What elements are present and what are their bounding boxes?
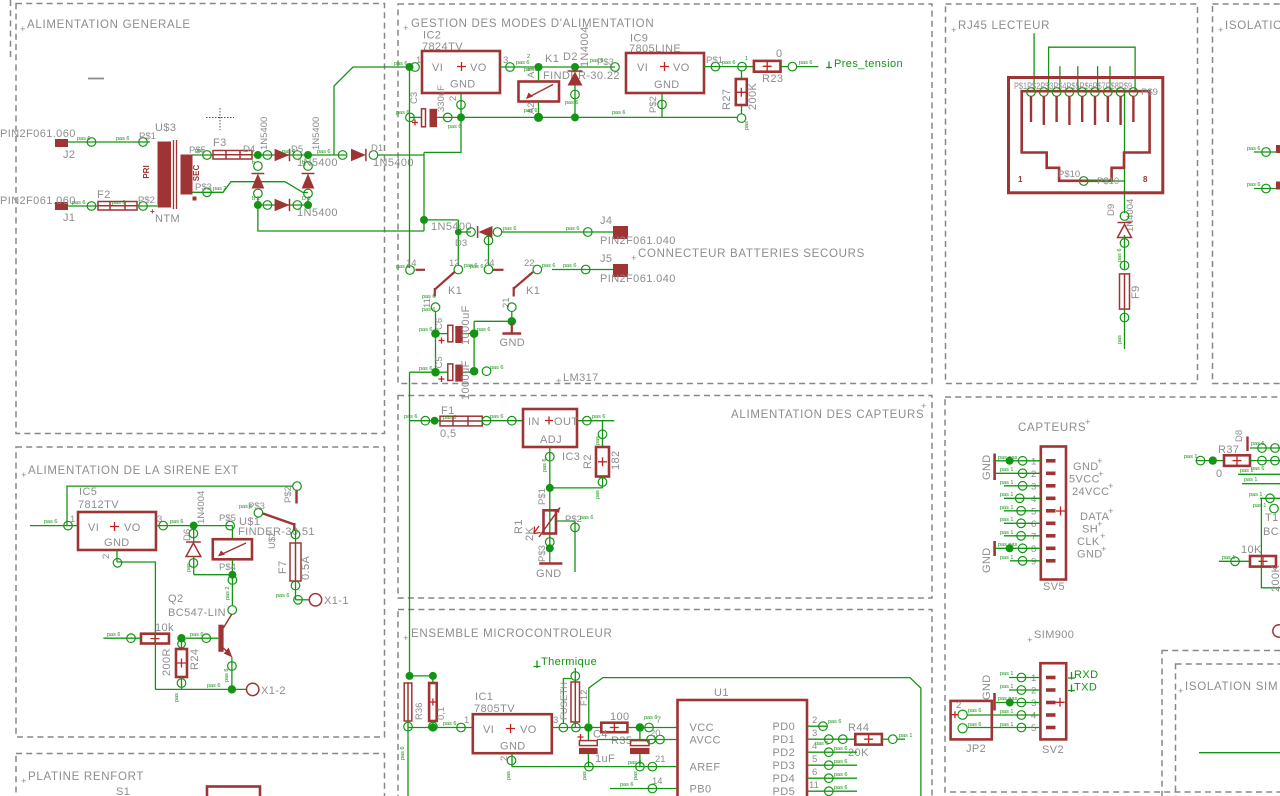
svg-text:PIN2F061.060: PIN2F061.060 xyxy=(0,195,76,207)
wire C6 to node xyxy=(473,321,475,371)
svg-text:5: 5 xyxy=(812,754,817,765)
wire stubs xyxy=(1059,66,1061,92)
wires right of R37 xyxy=(1250,447,1280,449)
svg-text:pas 6: pas 6 xyxy=(503,226,516,232)
fuse F7 xyxy=(290,543,301,581)
frame GESTION DES MODES D'ALIMENTATION xyxy=(398,4,932,384)
connector X1-1 xyxy=(309,594,321,606)
svg-text:pas 6: pas 6 xyxy=(516,60,529,66)
svg-text:P$2: P$2 xyxy=(648,96,659,113)
SV2 tiny pin texts xyxy=(998,671,1018,728)
svg-text:pas: pas xyxy=(582,771,588,780)
svg-text:+: + xyxy=(1097,456,1103,467)
svg-text:pas 6: pas 6 xyxy=(116,136,129,142)
junction battery node xyxy=(420,216,428,224)
pin 1 IC2 xyxy=(411,63,420,72)
svg-text:SEC: SEC xyxy=(192,165,201,182)
wire bridge bottom bus xyxy=(258,209,424,231)
crosshair mark xyxy=(206,108,234,130)
svg-text:pas 6: pas 6 xyxy=(834,759,847,765)
svg-text:D1: D1 xyxy=(371,143,383,154)
svg-text:0: 0 xyxy=(1216,468,1223,480)
wire D1 out to GESTION xyxy=(378,154,424,156)
gnd bus wire xyxy=(512,766,678,768)
svg-text:VCC: VCC xyxy=(690,722,714,734)
svg-text:OUT: OUT xyxy=(554,416,578,428)
svg-text:ENSEMBLE MICROCONTROLEUR: ENSEMBLE MICROCONTROLEUR xyxy=(411,628,612,640)
svg-text:DATA: DATA xyxy=(1080,511,1110,523)
ground bus to X1-2 xyxy=(155,688,246,690)
svg-text:5: 5 xyxy=(1031,507,1036,518)
svg-text:pas 6: pas 6 xyxy=(524,67,537,73)
svg-text:C5: C5 xyxy=(434,356,445,368)
svg-text:P$3: P$3 xyxy=(195,182,212,193)
relay contact K1 right (22-21) xyxy=(533,265,542,274)
svg-text:1N5400: 1N5400 xyxy=(297,207,338,219)
wire supply vertical into micro xyxy=(409,598,411,676)
svg-text:P$2: P$2 xyxy=(138,195,155,206)
svg-text:LM317: LM317 xyxy=(563,372,599,384)
svg-text:200K: 200K xyxy=(1270,564,1280,592)
SV2 pin numbers xyxy=(1031,673,1036,734)
svg-text:+: + xyxy=(20,24,26,35)
svg-text:pas 1: pas 1 xyxy=(1240,468,1253,474)
svg-text:pas 6: pas 6 xyxy=(448,124,461,130)
pin 14 PB0 xyxy=(610,788,678,790)
junction base node xyxy=(177,634,185,642)
svg-text:pas 6: pas 6 xyxy=(443,721,456,727)
svg-text:pas 6: pas 6 xyxy=(834,772,847,778)
svg-text:GND: GND xyxy=(981,454,993,480)
svg-text:0.5A: 0.5A xyxy=(300,556,312,580)
svg-text:pas 6: pas 6 xyxy=(239,504,252,510)
label Thermique xyxy=(534,661,541,669)
svg-text:GND: GND xyxy=(981,547,993,573)
pin 3 PD1 / resistor R44 xyxy=(807,738,855,740)
svg-text:1N5400: 1N5400 xyxy=(311,117,322,150)
wire diode D3 row xyxy=(458,231,471,233)
svg-text:R24: R24 xyxy=(189,649,201,670)
svg-text:pas 1: pas 1 xyxy=(1000,684,1013,690)
svg-text:GESTION DES MODES D'ALIMENTATI: GESTION DES MODES D'ALIMENTATION xyxy=(411,18,654,30)
pin 2 PD0 xyxy=(807,725,827,727)
svg-text:1: 1 xyxy=(1018,175,1023,184)
base wire xyxy=(186,637,218,639)
resistor R36 0,1 xyxy=(432,676,434,683)
svg-text:24VCC: 24VCC xyxy=(1072,486,1109,498)
wire SEC bottom (AC2) xyxy=(193,182,309,193)
wire F1 to LM317 xyxy=(482,420,523,422)
svg-text:9: 9 xyxy=(1031,557,1036,568)
svg-text:R2: R2 xyxy=(582,454,594,469)
svg-text:GND: GND xyxy=(1077,549,1103,561)
relay contact P$3 arm xyxy=(254,509,263,518)
svg-text:IC2: IC2 xyxy=(423,30,441,42)
capacitor C5 xyxy=(431,368,440,377)
svg-text:pas 6: pas 6 xyxy=(828,719,841,725)
svg-text:1: 1 xyxy=(416,55,421,66)
svg-text:7: 7 xyxy=(1031,532,1036,543)
SV5 pin stubs xyxy=(1046,459,1056,563)
svg-text:2: 2 xyxy=(956,700,961,711)
svg-text:RJ45 LECTEUR: RJ45 LECTEUR xyxy=(958,20,1050,32)
sheet border segment top-left xyxy=(10,0,12,58)
svg-text:pas 6: pas 6 xyxy=(590,58,603,64)
svg-text:24: 24 xyxy=(484,258,495,269)
svg-text:2: 2 xyxy=(812,715,817,726)
svg-text:pas 6: pas 6 xyxy=(542,459,548,472)
svg-text:pas 1: pas 1 xyxy=(1000,492,1013,498)
svg-text:pas 6: pas 6 xyxy=(443,415,456,421)
svg-text:pas 6: pas 6 xyxy=(612,110,625,116)
svg-text:pas 6: pas 6 xyxy=(317,149,330,155)
svg-text:PD4: PD4 xyxy=(773,773,796,785)
svg-text:3: 3 xyxy=(1031,482,1036,493)
fuse F1 xyxy=(440,416,482,426)
green line in isolation sim xyxy=(1199,752,1280,754)
svg-text:pas: pas xyxy=(195,148,204,154)
svg-text:2: 2 xyxy=(1031,686,1036,697)
pin 21 AREF xyxy=(648,762,657,771)
svg-text:D3: D3 xyxy=(455,238,467,249)
resistor R2 xyxy=(602,421,604,447)
svg-text:2: 2 xyxy=(1031,469,1036,480)
pin 3 IC5 out xyxy=(159,521,168,530)
svg-text:pas 6: pas 6 xyxy=(628,760,641,766)
SV2 gnd symbol xyxy=(993,693,996,711)
relay contact to fuse F7 xyxy=(291,530,300,539)
svg-text:+: + xyxy=(403,633,409,644)
pin 4 PD2 xyxy=(807,751,857,753)
svg-text:CLK: CLK xyxy=(1077,536,1100,548)
svg-text:PD3: PD3 xyxy=(773,760,796,772)
header JP2 xyxy=(951,701,992,740)
svg-text:pas 1: pas 1 xyxy=(1000,517,1013,523)
diode D8 stub xyxy=(1246,437,1248,452)
wire supply vertical xyxy=(409,396,411,599)
wire contact 11 down xyxy=(435,312,437,373)
svg-text:pas 6: pas 6 xyxy=(968,708,981,714)
svg-text:pas 6: pas 6 xyxy=(224,669,230,682)
svg-text:RXD: RXD xyxy=(1074,669,1098,681)
emitter wire xyxy=(231,657,233,690)
svg-text:+: + xyxy=(1098,469,1104,480)
frame RJ45 LECTEUR xyxy=(946,4,1198,384)
svg-text:pas 2: pas 2 xyxy=(213,186,226,192)
svg-text:pas 1: pas 1 xyxy=(1249,492,1262,498)
svg-text:pas 6: pas 6 xyxy=(968,722,981,728)
svg-text:1: 1 xyxy=(1031,673,1036,684)
capacitor C3 xyxy=(406,113,415,122)
svg-text:Pres_tension: Pres_tension xyxy=(834,58,903,70)
svg-text:2: 2 xyxy=(527,54,530,60)
svg-text:P$9: P$9 xyxy=(1141,87,1158,98)
svg-text:PD5: PD5 xyxy=(773,786,796,796)
svg-text:+: + xyxy=(1100,531,1106,542)
svg-text:330uF: 330uF xyxy=(436,85,447,112)
svg-text:+: + xyxy=(21,470,27,481)
header SV2 xyxy=(1040,663,1066,739)
svg-text:F2: F2 xyxy=(97,189,111,201)
svg-text:F9: F9 xyxy=(1130,285,1142,299)
svg-text:PD2: PD2 xyxy=(773,747,796,759)
svg-text:1uF: 1uF xyxy=(595,753,615,765)
svg-text:pas 6: pas 6 xyxy=(419,327,432,333)
svg-text:pas 6: pas 6 xyxy=(396,110,409,116)
pin circle xyxy=(87,138,96,147)
svg-text:P$1: P$1 xyxy=(139,131,156,142)
svg-text:pas 6: pas 6 xyxy=(422,294,435,300)
svg-text:1: 1 xyxy=(745,56,748,62)
wire gnd node down from C3 xyxy=(424,117,461,152)
svg-text:J2: J2 xyxy=(63,149,75,161)
svg-text:SV5: SV5 xyxy=(1043,581,1065,593)
fuse thermique xyxy=(571,672,580,681)
wire stub lower xyxy=(1254,188,1280,190)
svg-text:3: 3 xyxy=(503,55,508,66)
svg-text:D 3: D 3 xyxy=(302,196,311,202)
RJ45 inner cavity xyxy=(1022,91,1150,181)
svg-text:PRI: PRI xyxy=(142,165,151,178)
svg-text:P$1: P$1 xyxy=(537,488,548,505)
svg-text:pas: pas xyxy=(744,121,750,130)
svg-text:+: + xyxy=(1178,686,1184,697)
wire J2 to transformer P$1 xyxy=(68,141,150,143)
relay contact K1 pin24 xyxy=(484,265,493,274)
svg-text:+: + xyxy=(921,401,927,412)
svg-text:pas 6: pas 6 xyxy=(394,61,407,67)
transformer U$3 secondary winding xyxy=(181,155,193,195)
junction to F1 xyxy=(410,420,441,422)
svg-text:+: + xyxy=(951,25,957,36)
svg-text:CAPTEURS: CAPTEURS xyxy=(1018,422,1086,434)
pin 3 IC1 out xyxy=(559,723,568,732)
svg-text:pas 6: pas 6 xyxy=(44,519,57,525)
svg-text:VI: VI xyxy=(483,724,494,736)
pin 5 PD3 xyxy=(807,764,857,766)
pin ADJ xyxy=(546,452,555,461)
svg-text:0: 0 xyxy=(776,48,783,60)
vertical wire xyxy=(1261,498,1280,588)
pin 2 IC9 gnd xyxy=(661,93,663,117)
contact pin P$2 stub xyxy=(295,491,297,504)
svg-text:VI: VI xyxy=(637,62,648,74)
svg-text:PLATINE RENFORT: PLATINE RENFORT xyxy=(28,771,144,783)
potentiometer R1 xyxy=(544,510,557,533)
svg-text:pas 6: pas 6 xyxy=(563,263,576,269)
svg-text:+: + xyxy=(1108,481,1114,492)
frame PLATINE RENFORT xyxy=(16,754,385,796)
svg-text:P$10: P$10 xyxy=(1058,169,1080,180)
SV5 pin wires xyxy=(997,461,1041,561)
frame ALIMENTATION DES CAPTEURS xyxy=(398,396,932,599)
frame ISOLATION LECTEUR xyxy=(1213,4,1280,384)
svg-text:pas 6: pas 6 xyxy=(722,60,735,66)
svg-text:pas 1: pas 1 xyxy=(1000,530,1013,536)
svg-text:pas: pas xyxy=(1117,335,1123,344)
svg-text:21: 21 xyxy=(655,754,666,765)
RJ45 connector U$ outer body xyxy=(1009,78,1163,193)
svg-text:10k: 10k xyxy=(155,622,174,634)
svg-text:BC5: BC5 xyxy=(1263,526,1280,538)
svg-text:VI: VI xyxy=(432,62,443,74)
svg-text:P$2: P$2 xyxy=(283,486,294,503)
svg-text:pas 1: pas 1 xyxy=(899,733,912,739)
svg-text:D9: D9 xyxy=(1106,204,1117,216)
svg-text:11: 11 xyxy=(809,780,819,791)
svg-text:8: 8 xyxy=(1031,544,1036,555)
svg-text:GND: GND xyxy=(104,537,130,549)
svg-text:U1: U1 xyxy=(714,687,729,699)
svg-text:VI: VI xyxy=(88,522,99,534)
connector J1 pad xyxy=(55,202,68,210)
svg-text:pas 6: pas 6 xyxy=(422,307,435,313)
svg-text:R27: R27 xyxy=(721,89,733,110)
svg-text:GND: GND xyxy=(500,337,526,349)
bridge left diode (vertical) xyxy=(254,162,263,171)
svg-text:pas 6: pas 6 xyxy=(834,785,847,791)
ground symbol GND xyxy=(549,548,551,562)
wire vertical node xyxy=(423,152,425,231)
svg-text:J4: J4 xyxy=(600,215,612,227)
svg-text:2: 2 xyxy=(499,756,510,761)
diode bridge bottom xyxy=(263,201,272,210)
svg-text:b 2: b 2 xyxy=(252,196,260,202)
svg-text:D4: D4 xyxy=(243,144,255,155)
svg-text:VO: VO xyxy=(673,62,690,74)
svg-text:pas 6: pas 6 xyxy=(1117,249,1123,262)
svg-text:R36: R36 xyxy=(414,703,425,720)
svg-text:pas: pas xyxy=(595,490,601,499)
svg-text:pas 1: pas 1 xyxy=(1000,480,1013,486)
fuse F2 xyxy=(98,202,137,211)
svg-text:ALIMENTATION DES CAPTEURS: ALIMENTATION DES CAPTEURS xyxy=(731,409,924,421)
svg-text:pas 6: pas 6 xyxy=(282,149,295,155)
connector ring partial xyxy=(1273,625,1280,637)
svg-text:PIN2F061.040: PIN2F061.040 xyxy=(600,235,676,247)
svg-text:pas 1: pas 1 xyxy=(1000,671,1013,677)
wire to RJ45 pin1 xyxy=(1033,33,1035,92)
svg-text:3: 3 xyxy=(553,715,558,726)
SV2 pin stubs xyxy=(1046,676,1056,730)
wire C5 left to capteurs bus xyxy=(410,371,436,373)
svg-text:+: + xyxy=(21,776,27,787)
svg-text:6: 6 xyxy=(1031,519,1036,530)
svg-text:100: 100 xyxy=(610,711,630,723)
svg-text:pas 6: pas 6 xyxy=(107,632,120,638)
svg-text:IC3: IC3 xyxy=(562,451,580,463)
fuse F9 xyxy=(1120,261,1129,270)
wire R2 bottom to ADJ xyxy=(550,487,603,489)
junction xyxy=(304,151,312,159)
wire contact 24 up xyxy=(488,236,490,266)
junction R1 bottom xyxy=(546,538,555,547)
svg-text:6: 6 xyxy=(812,767,817,778)
svg-text:K1: K1 xyxy=(526,285,540,297)
pin 1 IC9 xyxy=(611,63,620,72)
wire J1 to fuse F2 xyxy=(68,205,98,207)
svg-text:5VCC: 5VCC xyxy=(1069,474,1100,486)
svg-text:12: 12 xyxy=(449,258,460,269)
svg-text:P$5: P$5 xyxy=(219,513,236,524)
capacitor C7 xyxy=(639,728,641,741)
svg-text:pas 6: pas 6 xyxy=(190,632,203,638)
svg-text:200K: 200K xyxy=(747,82,759,110)
svg-text:1: 1 xyxy=(70,514,75,525)
svg-text:pas 6: pas 6 xyxy=(592,414,605,420)
svg-text:3: 3 xyxy=(812,728,817,739)
svg-text:PIN2F061.040: PIN2F061.040 xyxy=(600,273,676,285)
svg-text:TXD: TXD xyxy=(1074,682,1097,694)
svg-text:PB0: PB0 xyxy=(690,784,712,796)
svg-text:PD1: PD1 xyxy=(773,734,796,746)
svg-text:pas 6: pas 6 xyxy=(799,60,812,66)
pin P$1 xyxy=(139,138,148,147)
svg-text:20K: 20K xyxy=(848,747,869,759)
fuse F5 xyxy=(404,683,412,721)
ground symbol GND xyxy=(511,323,513,333)
junction xyxy=(254,151,262,159)
svg-text:GND: GND xyxy=(654,79,680,91)
SV5 pin circles xyxy=(1006,457,1027,566)
pin 20 AVCC xyxy=(597,739,678,741)
svg-text:SH: SH xyxy=(1082,524,1098,536)
svg-text:7812TV: 7812TV xyxy=(78,499,119,511)
wire vertical input bus xyxy=(409,67,411,268)
svg-text:IC5: IC5 xyxy=(79,486,97,498)
svg-text:D2: D2 xyxy=(563,51,578,63)
pin 11 PD5 xyxy=(807,790,857,792)
svg-text:P$3: P$3 xyxy=(537,545,548,562)
svg-text:BC547-LIN: BC547-LIN xyxy=(168,607,226,619)
svg-text:PIN2F061.060: PIN2F061.060 xyxy=(0,128,76,140)
wire contact 21 down xyxy=(511,312,513,322)
svg-text:VO: VO xyxy=(124,522,141,534)
svg-text:U$2: U$2 xyxy=(267,532,278,549)
pin 2 IC1 gnd xyxy=(511,753,513,766)
svg-text:Thermique: Thermique xyxy=(541,656,597,668)
svg-text:J1: J1 xyxy=(63,212,75,224)
svg-text:SV2: SV2 xyxy=(1042,744,1064,756)
pin 6 PD4 xyxy=(807,777,857,779)
svg-text:GND: GND xyxy=(981,674,993,700)
svg-text:3: 3 xyxy=(1031,698,1036,709)
regulator IC3 LM317 xyxy=(523,409,577,447)
svg-text:ISOLATION SIM: ISOLATION SIM xyxy=(1185,681,1278,693)
svg-text:1N5400: 1N5400 xyxy=(259,117,270,150)
svg-text:pas: pas xyxy=(186,563,192,572)
svg-text:1: 1 xyxy=(464,715,469,726)
svg-text:pas 6: pas 6 xyxy=(207,683,220,689)
svg-text:K1: K1 xyxy=(448,285,462,297)
svg-text:4: 4 xyxy=(1031,494,1036,505)
svg-text:IN: IN xyxy=(528,416,540,428)
resistor R24 xyxy=(181,638,183,649)
svg-text:1: 1 xyxy=(1031,457,1036,468)
svg-text:1N5400: 1N5400 xyxy=(431,221,472,233)
svg-text:1000uF: 1000uF xyxy=(460,305,472,345)
relay contact K1 left (12-11) xyxy=(454,265,463,274)
svg-text:pas 1: pas 1 xyxy=(1244,477,1257,483)
svg-text:ALIMENTATION GENERALE: ALIMENTATION GENERALE xyxy=(27,19,191,31)
pot wiper P$2 xyxy=(556,520,575,522)
svg-text:pas 6: pas 6 xyxy=(400,747,406,760)
svg-text:10K: 10K xyxy=(1241,544,1262,556)
svg-text:ADJ: ADJ xyxy=(540,434,562,446)
svg-text:pas 6: pas 6 xyxy=(1247,146,1260,152)
svg-text:IC1: IC1 xyxy=(475,691,493,703)
svg-text:1N4004: 1N4004 xyxy=(196,491,207,524)
